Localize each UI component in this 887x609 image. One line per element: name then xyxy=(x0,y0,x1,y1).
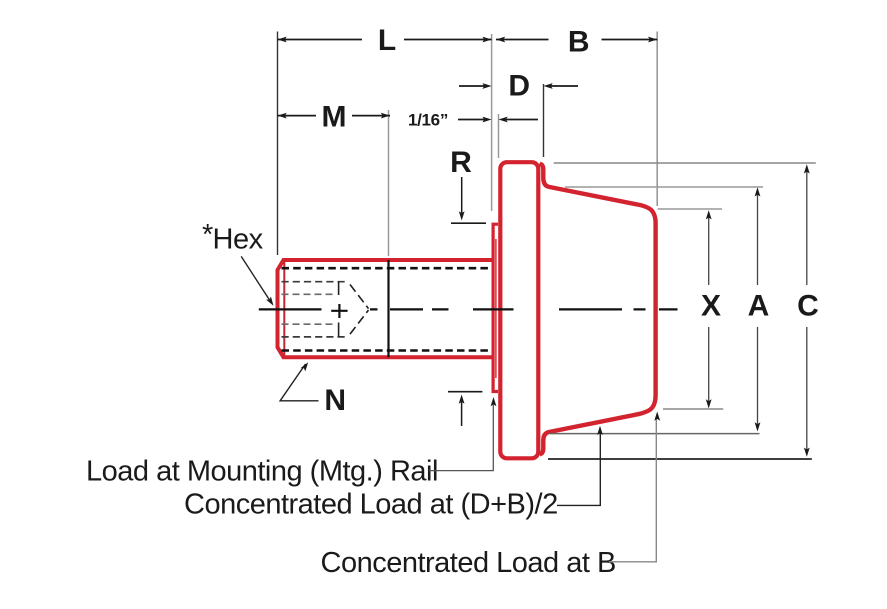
svg-text:Concentrated Load at B: Concentrated Load at B xyxy=(321,547,616,579)
extension line C bottom xyxy=(548,458,812,460)
leader Load at Mounting Rail xyxy=(429,403,493,471)
leader *Hex xyxy=(241,256,270,301)
stud outline xyxy=(278,260,494,357)
hex socket corner line bottom xyxy=(282,336,349,338)
R bottom arrow xyxy=(461,400,463,426)
hex socket flat line top xyxy=(282,293,334,295)
R landing line bottom xyxy=(448,391,482,393)
extension line X bottom xyxy=(663,408,723,410)
dimension D right arrow xyxy=(549,85,578,87)
thread hidden line top xyxy=(282,267,491,270)
center cross vertical xyxy=(338,304,340,318)
dimension R arrow xyxy=(461,177,463,214)
center line dashed right part xyxy=(370,308,678,310)
extension line X top xyxy=(658,208,722,210)
dimension B line xyxy=(496,39,549,41)
cone body outline xyxy=(540,164,656,455)
svg-text:L: L xyxy=(378,24,396,57)
svg-text:*: * xyxy=(202,219,213,251)
leader Concentrated Load at B xyxy=(609,417,656,562)
thread hidden line bottom xyxy=(282,349,491,352)
extension line M right (x=388.5) xyxy=(388,110,390,256)
dimension X line xyxy=(708,213,710,285)
svg-text:N: N xyxy=(324,384,346,417)
leader N xyxy=(280,364,318,401)
dimension L line xyxy=(278,39,363,41)
svg-text:X: X xyxy=(701,290,721,323)
center line solid left part xyxy=(259,308,322,310)
hex socket bottom edge lower xyxy=(338,323,340,337)
extension line D right (x=543.5) xyxy=(543,84,545,157)
extension line B right (x=657.2) xyxy=(656,32,658,207)
svg-text:D: D xyxy=(508,70,530,103)
R landing line top xyxy=(451,222,486,224)
leader Concentrated Load at (D+B)/2 xyxy=(557,431,600,505)
thread end line xyxy=(387,260,389,357)
dimension 1/16 right arrow xyxy=(504,119,538,121)
svg-text:Concentrated Load at (D+B)/2: Concentrated Load at (D+B)/2 xyxy=(184,489,558,521)
flange outline xyxy=(500,162,538,458)
hex socket corner line top xyxy=(282,281,349,283)
svg-text:Load at Mounting (Mtg.) Rail: Load at Mounting (Mtg.) Rail xyxy=(86,456,438,488)
extension line C top xyxy=(554,162,816,164)
svg-text:A: A xyxy=(748,290,770,323)
svg-text:B: B xyxy=(568,26,590,59)
svg-text:C: C xyxy=(797,290,819,323)
extension line left (x=277.5) xyxy=(277,32,279,256)
svg-text:R: R xyxy=(450,146,472,179)
svg-text:1/16”: 1/16” xyxy=(408,111,448,130)
dimension 1/16 left arrow xyxy=(458,119,486,121)
drill point lower diagonal xyxy=(350,310,369,334)
hex socket flat line bottom xyxy=(282,323,334,325)
extension line A top xyxy=(565,186,763,188)
svg-text:Hex: Hex xyxy=(213,224,264,256)
dimension C line xyxy=(806,167,808,285)
svg-text:M: M xyxy=(322,101,347,134)
dimension A line xyxy=(757,190,759,285)
stud chamfer edge line xyxy=(283,262,285,356)
extension line mounting face (x=491.6) xyxy=(491,34,493,211)
step inner edge line xyxy=(495,239,497,378)
extension line flange face (x=498.5) xyxy=(498,114,500,158)
dimension D left arrow xyxy=(459,85,486,87)
step (1/16 shoulder) outline xyxy=(493,224,498,391)
drill point upper diagonal xyxy=(350,285,369,309)
hex socket bottom edge upper xyxy=(338,282,340,295)
dimension M line xyxy=(278,115,317,117)
center cross horizontal xyxy=(331,310,347,312)
extension line A bottom xyxy=(550,433,760,435)
